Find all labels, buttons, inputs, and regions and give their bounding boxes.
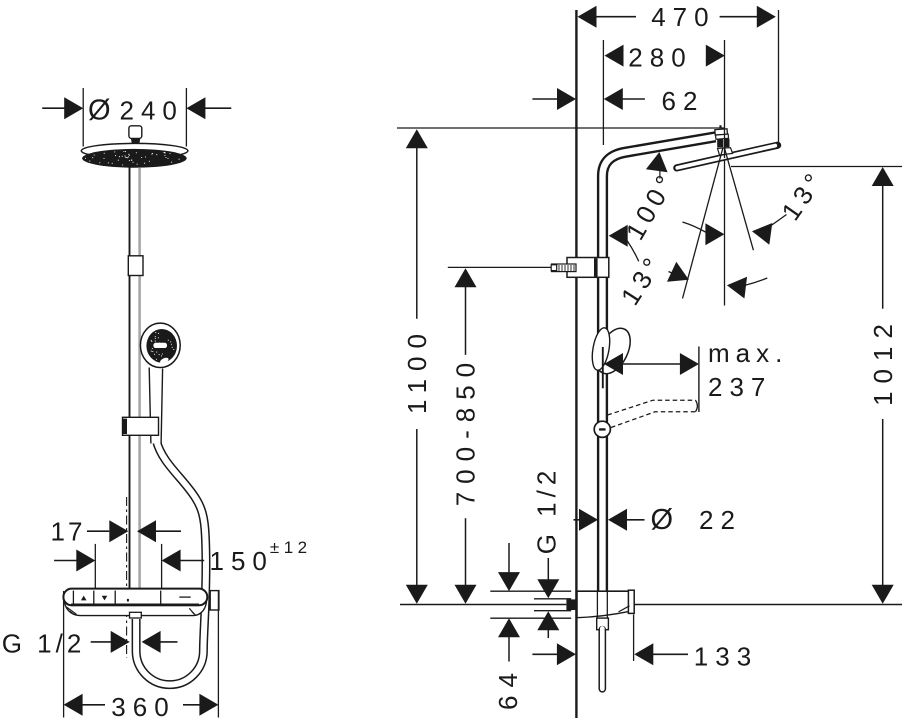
svg-text:1100: 1100 [402, 326, 432, 414]
svg-text:Ø: Ø [651, 504, 674, 536]
svg-text:G 1/2: G 1/2 [2, 628, 86, 658]
svg-text:237: 237 [708, 372, 772, 402]
svg-text:360: 360 [111, 692, 175, 722]
svg-text:700-850: 700-850 [450, 355, 480, 506]
svg-text:G 1/2: G 1/2 [532, 466, 562, 555]
svg-text:240: 240 [120, 96, 184, 126]
svg-text:1012: 1012 [868, 316, 898, 406]
svg-text:62: 62 [662, 86, 705, 116]
svg-text:max.: max. [708, 338, 788, 368]
svg-text:470: 470 [651, 2, 715, 32]
svg-text:64: 64 [493, 665, 523, 710]
svg-text:280: 280 [628, 43, 692, 73]
svg-text:22: 22 [699, 505, 742, 535]
svg-text:17: 17 [51, 517, 86, 547]
svg-text:Ø: Ø [88, 95, 111, 127]
svg-text:133: 133 [694, 641, 758, 671]
